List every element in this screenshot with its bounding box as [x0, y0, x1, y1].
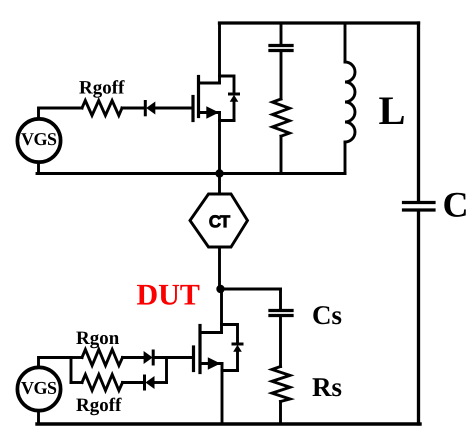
diode D3 (turn-off, bottom) [145, 376, 167, 389]
wire VGS bottom to bottom rail [37, 411, 40, 425]
label DUT [137, 285, 199, 305]
resistor Rgoff (top) [82, 101, 122, 116]
label Cs [313, 306, 341, 324]
wire diode join vertical [165, 358, 168, 383]
wire VGS top to branch split [39, 358, 72, 368]
capacitor (snubber branch top) [270, 23, 292, 99]
wire Rs to bottom rail [279, 402, 282, 425]
voltage source VGS (top) [17, 119, 60, 162]
label Rgoff (bottom) [76, 398, 121, 416]
diode D1 (turn-off, top) [145, 102, 193, 115]
label L [379, 98, 404, 125]
resistor Rs [272, 367, 290, 402]
capacitor C [404, 203, 435, 211]
transistor DUT [194, 289, 223, 424]
body diode of DUT [222, 325, 243, 371]
voltage source VGS (bottom) [17, 367, 60, 410]
inductor L [345, 23, 355, 174]
wire branch split vertical [70, 358, 73, 383]
label C [444, 193, 466, 217]
wire right rail upper [417, 23, 420, 201]
wire DUT node to Cs branch [221, 288, 281, 291]
resistor (snubber branch) [273, 99, 290, 136]
wire bottom rail [37, 422, 420, 425]
label VGS (bottom) [21, 382, 56, 394]
label Rgoff (top) [79, 80, 124, 98]
diode D2 (turn-on) [144, 351, 194, 364]
wire Rgon to diode [123, 356, 144, 359]
wire node line [37, 172, 345, 175]
label VGS (top) [21, 133, 56, 145]
capacitor Cs [270, 289, 292, 367]
resistor Rgoff (bottom) [82, 375, 123, 391]
current transformer CT [190, 174, 248, 290]
body diode of M1 [220, 76, 239, 121]
wire to Rgoff (bottom) [71, 381, 82, 384]
wire VGS top to resistor [39, 108, 83, 119]
node DUT drain dot [216, 285, 224, 293]
label CT [210, 215, 231, 227]
resistor Rgon [82, 350, 123, 366]
wire VGS bottom to node line [37, 162, 40, 174]
wire top rail [220, 21, 419, 24]
node junction dot [215, 169, 223, 177]
label Rs [313, 378, 342, 396]
label Rgon [76, 332, 119, 349]
wire right rail lower [417, 211, 420, 424]
transistor M1 (top switch) [193, 23, 220, 174]
wire Rgoff to diode [123, 381, 145, 384]
wire resistor to diode [122, 107, 145, 110]
wire to Rgon [71, 356, 82, 359]
wire resistor to node line [280, 136, 283, 173]
